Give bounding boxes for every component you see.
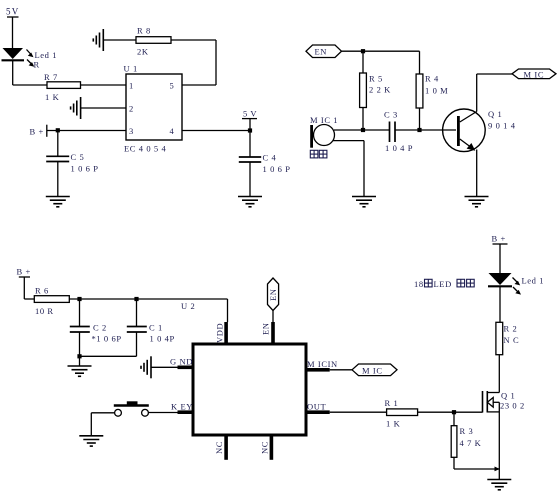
svg-text:1 0 6 P: 1 0 6 P: [71, 164, 99, 174]
wire button to ground: [91, 413, 114, 436]
wire Q1 collector to MIC flag: [477, 74, 512, 112]
svg-text:R 3: R 3: [460, 426, 474, 436]
resistor R4: [416, 74, 423, 132]
svg-text:R 7: R 7: [44, 72, 58, 82]
svg-text:1 0 M: 1 0 M: [425, 86, 448, 96]
svg-text:EN: EN: [268, 288, 278, 301]
svg-text:1: 1: [129, 81, 134, 91]
svg-text:N C: N C: [504, 335, 520, 345]
svg-text:C 3: C 3: [384, 110, 398, 120]
op-amp U1 box: [126, 74, 182, 140]
wire KEY to button: [149, 412, 178, 414]
switch KEY button: [114, 401, 149, 416]
wire MIC1 to C3: [334, 129, 390, 131]
pin VDD stub: [224, 322, 228, 344]
wire Q1 emitter to ground: [476, 150, 478, 197]
ground bottom right: [498, 469, 500, 480]
svg-text:U 2: U 2: [181, 301, 195, 311]
svg-text:23 0 2: 23 0 2: [500, 401, 525, 411]
capacitor C3: [390, 122, 396, 143]
svg-text:3: 3: [129, 126, 134, 136]
svg-text:B +: B +: [492, 234, 506, 244]
svg-text:OUT: OUT: [307, 402, 326, 412]
svg-text:EC 4 0 5 4: EC 4 0 5 4: [124, 144, 167, 154]
wire ground to R8: [103, 39, 136, 41]
svg-text:M IC 1: M IC 1: [310, 115, 338, 125]
ground at R8: [93, 29, 103, 51]
svg-text:M IC: M IC: [524, 70, 545, 80]
pin OUT stub: [306, 410, 330, 414]
transistor Q1 2302 mosfet: [483, 391, 500, 413]
ground at U1 pin2: [71, 97, 81, 119]
wire R2 to Q1 drain: [498, 355, 500, 393]
resistor R1: [387, 409, 418, 416]
svg-text:4 7 K: 4 7 K: [460, 438, 482, 448]
svg-text:R 4: R 4: [425, 74, 439, 84]
wire LED to R7: [13, 84, 47, 86]
svg-text:C 5: C 5: [71, 152, 85, 162]
svg-text:R 5: R 5: [369, 74, 383, 84]
capacitor C1: [80, 299, 147, 356]
svg-text:C 2: C 2: [93, 323, 107, 333]
svg-text:1 0 6 P: 1 0 6 P: [263, 164, 291, 174]
svg-text:Led 1: Led 1: [522, 276, 545, 286]
node B+ right: [493, 244, 508, 273]
svg-text:R 1: R 1: [385, 398, 399, 408]
svg-text:K EY: K EY: [171, 402, 193, 412]
wire R6 to U2 VDD: [69, 297, 227, 322]
wire EN to R4 top: [342, 49, 420, 74]
svg-text:9 0 1 4: 9 0 1 4: [488, 121, 516, 131]
wire MIC1 to ground: [333, 141, 364, 197]
svg-text:5V: 5V: [6, 7, 19, 17]
ground at KEY: [79, 436, 103, 446]
resistor R5: [360, 51, 367, 132]
power 5V top-left: [7, 17, 19, 48]
wire LED to R2: [499, 286, 501, 322]
svg-text:10 R: 10 R: [35, 306, 54, 316]
svg-text:M IC: M IC: [362, 366, 383, 376]
svg-text:1 0 4 P: 1 0 4 P: [385, 143, 413, 153]
LED Led1 right: [488, 273, 521, 295]
capacitor C5: [46, 131, 69, 197]
svg-text:R 8: R 8: [137, 26, 151, 36]
node MIC flag top: [512, 69, 556, 79]
ground under C4: [238, 197, 262, 207]
svg-text:B +: B +: [30, 127, 44, 137]
wire Q1 source to ground: [498, 402, 500, 469]
svg-text:Q 1: Q 1: [501, 391, 515, 401]
pin MICIN stub: [306, 368, 330, 372]
svg-text:2K: 2K: [137, 47, 149, 57]
node MIC flag mid: [352, 364, 397, 376]
svg-text:EN: EN: [261, 322, 271, 335]
LED Led1 top-left: [2, 48, 35, 85]
resistor R2: [496, 322, 503, 354]
svg-text:NC: NC: [260, 441, 270, 454]
pin GND stub: [178, 366, 194, 370]
label mic chinese: [310, 150, 327, 158]
svg-text:5: 5: [170, 81, 175, 91]
svg-text:Led 1: Led 1: [35, 50, 58, 60]
ground under MIC1: [352, 197, 376, 207]
node B+ left: [47, 125, 126, 137]
pin EN stub: [271, 322, 275, 344]
node B+ bottom-left: [19, 277, 35, 299]
svg-text:R 6: R 6: [35, 286, 49, 296]
svg-text:G ND: G ND: [170, 357, 193, 367]
svg-text:VDD: VDD: [215, 323, 225, 343]
wire C3 to Q1 base: [395, 129, 456, 131]
svg-text:Q 1: Q 1: [488, 109, 502, 119]
pin NC stub 2: [270, 435, 274, 460]
capacitor C2: [70, 299, 90, 366]
svg-text:R 2: R 2: [504, 324, 518, 334]
resistor R6: [34, 296, 69, 303]
svg-text:B +: B +: [17, 267, 31, 277]
svg-text:EN: EN: [315, 47, 328, 57]
ground under C2: [68, 366, 92, 376]
svg-text:2: 2: [129, 104, 134, 114]
power 5V right: [242, 119, 257, 157]
resistor R3: [451, 412, 457, 469]
svg-text:C 1: C 1: [149, 323, 163, 333]
node EN flag vertical: [268, 278, 279, 322]
svg-text:U 1: U 1: [124, 64, 138, 74]
capacitor C4: [239, 157, 261, 197]
ground at U2 GND: [141, 356, 151, 378]
svg-text:R: R: [34, 60, 40, 70]
svg-text:NC: NC: [214, 441, 224, 454]
ground under C5: [46, 197, 70, 207]
svg-text:*1 0 6P: *1 0 6P: [92, 334, 122, 344]
svg-text:M ICIN: M ICIN: [307, 359, 338, 369]
svg-text:2 2 K: 2 2 K: [369, 85, 391, 95]
pin KEY stub: [178, 410, 194, 414]
wire ground to pin2: [81, 107, 126, 109]
resistor R7: [47, 82, 81, 89]
IC U2 box: [193, 344, 306, 435]
svg-text:1 K: 1 K: [386, 419, 401, 429]
wire R3 to ground node: [454, 467, 500, 472]
resistor R8: [136, 37, 171, 44]
svg-text:C 4: C 4: [263, 153, 277, 163]
svg-text:LED: LED: [434, 279, 452, 289]
pin NC stub 1: [224, 435, 228, 460]
svg-text:1 0 4P: 1 0 4P: [150, 334, 175, 344]
node EN flag: [306, 45, 342, 58]
transistor Q1 9014: [443, 109, 486, 152]
svg-text:18: 18: [414, 279, 424, 289]
wire GND pin to ground: [151, 366, 178, 368]
wire MICIN to MIC flag: [330, 369, 352, 371]
svg-text:5 V: 5 V: [243, 109, 257, 119]
microphone MIC1: [310, 125, 334, 148]
wire U1 pin4 to 5V node: [182, 128, 252, 132]
wire R7 to U1 pin1: [81, 84, 127, 86]
ground under Q1: [465, 197, 489, 207]
wire R8 to U1 pin5: [171, 40, 216, 85]
wire OUT to R1: [330, 411, 387, 413]
svg-text:4: 4: [170, 126, 175, 136]
svg-text:1 K: 1 K: [45, 92, 60, 102]
wire R1 to Q1 gate: [418, 410, 483, 414]
